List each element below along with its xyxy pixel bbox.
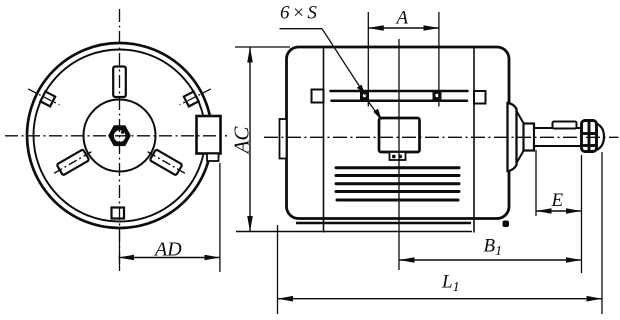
right end-bell seam [473, 48, 475, 233]
svg-text:AD: AD [153, 239, 182, 261]
upper-right rim lug [177, 84, 213, 110]
bearing hub [524, 124, 535, 151]
svg-text:B1: B1 [484, 236, 503, 260]
dimension L1 [278, 152, 603, 314]
svg-text:6×S: 6×S [280, 3, 319, 24]
svg-text:E: E [551, 190, 564, 211]
lower-left spoke [144, 146, 188, 178]
left view vertical centreline [119, 9, 121, 270]
shaft-end nut [582, 121, 597, 152]
svg-text:L1: L1 [441, 272, 460, 296]
top rail lines [331, 91, 468, 101]
top spoke [113, 67, 126, 98]
dimension B1 [399, 236, 582, 261]
svg-text:A: A [395, 8, 409, 29]
svg-text:AC: AC [230, 126, 254, 156]
left view: outer rim circle [27, 43, 212, 228]
shaft bell [508, 103, 525, 171]
rail hole left [360, 91, 369, 100]
side terminal box [379, 118, 420, 160]
dimension AD [119, 163, 220, 272]
bottom rim lug [112, 208, 125, 219]
motor body [287, 47, 510, 219]
shaft [534, 128, 582, 146]
left view horizontal centreline [5, 135, 227, 137]
shaft end dome [597, 124, 605, 151]
left bearing cap bump [280, 119, 287, 159]
centre hex nut [110, 127, 130, 145]
upper-left rim lug [26, 84, 62, 110]
foot pad [503, 221, 510, 228]
base channel [296, 222, 471, 224]
left view: hub circle [84, 100, 156, 172]
side view centreline [264, 136, 619, 138]
dimension A [368, 8, 439, 107]
dimension AC [230, 47, 473, 232]
label 6xS with leader [280, 3, 383, 121]
key [553, 122, 577, 129]
left seam clip [312, 90, 324, 103]
dimension E [536, 150, 582, 273]
left view: inner rim circle [34, 50, 206, 222]
left end-bell seam [323, 48, 325, 233]
lower-right spoke [51, 146, 95, 178]
terminal box centreline (B1 extension) [398, 39, 400, 270]
left-view terminal box [197, 116, 221, 161]
right seam clip [474, 91, 486, 104]
cooling fins [336, 168, 459, 200]
rail hole right [433, 91, 442, 100]
